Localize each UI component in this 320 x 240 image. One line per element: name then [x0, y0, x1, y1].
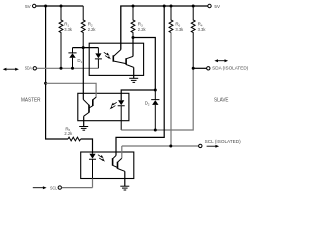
opto U2 LED — [118, 100, 125, 130]
opto U1 LED — [95, 48, 102, 69]
resistor R2 — [81, 6, 85, 48]
optocoupler U2 box — [78, 93, 129, 120]
junction dot R6 top — [170, 5, 173, 8]
junction dot isolated 5V feed — [163, 5, 166, 8]
wire U2 output collector to R2 node — [82, 48, 84, 100]
SCL terminal (master) — [33, 185, 62, 190]
svg-text:2.2k: 2.2k — [64, 131, 72, 136]
opto U3 LED — [89, 154, 96, 179]
label R5 2.2k — [64, 126, 72, 136]
junction dot D2 cathode — [154, 89, 157, 92]
junction dot SDA isolated node — [192, 67, 195, 70]
label R1 3.3k — [64, 22, 72, 32]
wire SCL isolated line — [122, 145, 199, 147]
opto U3 phototransistor Q2 — [117, 162, 119, 169]
svg-text:3.3k: 3.3k — [64, 27, 72, 32]
opto U3 phototransistor Q1 — [112, 158, 114, 165]
junction dot R4 top — [192, 5, 195, 8]
svg-text:D1: D1 — [77, 58, 82, 64]
diode D2 — [151, 90, 159, 130]
wire SDA bus (master) — [37, 67, 99, 69]
svg-text:5V: 5V — [25, 4, 32, 9]
svg-text:3.3k: 3.3k — [198, 27, 206, 32]
ground (isolated side, U3) — [120, 186, 129, 190]
junction dot node 5V-B — [60, 5, 63, 8]
svg-text:MASTER: MASTER — [21, 97, 41, 103]
opto U2 light arrows — [110, 102, 117, 109]
resistor R4 — [191, 6, 195, 68]
wire U2 emitter to ground — [83, 116, 85, 126]
resistor R6 — [169, 6, 173, 146]
wire isolated SDA return — [121, 68, 193, 130]
svg-text:SDA: SDA — [25, 66, 32, 71]
resistor R1 — [59, 6, 63, 68]
junction dot R6/SCL isolated — [169, 145, 172, 148]
wire R2 node to LED1 anode — [73, 47, 99, 49]
junction dot D2 anode — [154, 129, 157, 132]
junction dot node R2/D1 — [82, 46, 85, 49]
svg-text:SLAVE: SLAVE — [214, 98, 229, 104]
resistor R3 — [131, 6, 135, 38]
opto U1 light arrows — [104, 52, 111, 59]
svg-text:5V: 5V — [214, 4, 221, 9]
wire 5V down-feed to R5 — [46, 6, 68, 139]
5V supply terminal (isolated) — [208, 4, 221, 9]
wire isolated 5V to U3 Q1 collector — [116, 6, 164, 156]
optocoupler U1 box — [89, 43, 143, 75]
wire SCL bus (master) — [62, 179, 93, 188]
wire isolated 5V rail — [121, 6, 208, 50]
junction dot D1/SDA — [71, 67, 74, 70]
SDA terminal (master) — [3, 66, 37, 71]
junction dot R3 node — [132, 36, 135, 39]
opto U1 phototransistor Q2 — [125, 58, 127, 64]
opto U1 phototransistor Q1 — [112, 55, 114, 61]
SCL (ISOLATED) terminal — [199, 139, 242, 148]
junction dot node 5V-A — [44, 5, 47, 8]
label R2 2.2k — [88, 22, 96, 32]
opto U2 phototransistor Q2 — [88, 105, 90, 113]
opto U3 light arrows — [98, 155, 105, 162]
wire LED2 anode feed — [121, 90, 155, 100]
resistor R5 (2.2k) — [68, 137, 81, 141]
junction dot R1/SDA — [60, 67, 63, 70]
svg-text:2.2k: 2.2k — [88, 27, 96, 32]
opto U2 phototransistor Q1 — [92, 99, 94, 106]
wire U2 Q1 collector to master 5V — [46, 83, 97, 97]
SDA (ISOLATED) terminal — [193, 59, 248, 70]
diode D1 — [68, 48, 76, 69]
junction dot node feed — [44, 82, 47, 85]
ground (master side, U2) — [79, 127, 88, 131]
wire R3 node to D2 cathode — [133, 38, 155, 91]
5V supply terminal (master) — [25, 4, 36, 9]
svg-text:D2: D2 — [145, 101, 150, 107]
wire U3 emitter to ground — [124, 171, 126, 186]
svg-text:SDA (ISOLATED): SDA (ISOLATED) — [212, 66, 248, 71]
wire U1 output collector — [132, 38, 134, 57]
svg-text:3.3k: 3.3k — [175, 27, 183, 32]
junction dot R3 top — [132, 5, 135, 8]
svg-text:SCL (ISOLATED): SCL (ISOLATED) — [205, 139, 241, 144]
svg-text:2.2k: 2.2k — [138, 27, 146, 32]
ground (isolated side, U1) — [129, 78, 138, 82]
wire master 5V rail — [36, 5, 83, 7]
svg-text:SCL: SCL — [50, 185, 58, 190]
wire U1 emitter to ground — [133, 67, 135, 78]
wire R5 to LED3 anode — [81, 139, 93, 154]
label R3 2.2k — [138, 22, 146, 32]
label R6 3.3k — [175, 22, 183, 32]
label R4 3.3k — [198, 22, 206, 32]
optocoupler U3 box — [81, 152, 134, 179]
wire U3 output collector to SCL isolated — [121, 146, 123, 158]
